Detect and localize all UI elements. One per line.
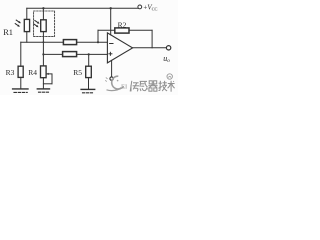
background (0, 0, 178, 95)
char shu (168, 81, 175, 92)
resistor R5 body (86, 66, 92, 77)
op-amp plus sign (109, 53, 112, 55)
photoresistor arrows RG (33, 20, 39, 27)
junction dot crossing (42, 41, 44, 43)
char gan (140, 81, 148, 91)
watermark text EI (121, 83, 127, 90)
watermark small circle mark (167, 74, 172, 79)
junction dot R5 tap (88, 53, 90, 55)
wire feedback riser from inverting input (97, 30, 99, 42)
junction dot N2 (42, 53, 44, 55)
resistor input lower (unlabeled) body (63, 52, 77, 57)
junction dot feedback tap (97, 41, 99, 43)
junction dot RG top at rail (42, 7, 44, 9)
wire R4 bottom lead (42, 78, 44, 89)
wire photoresistor RG bottom lead down to node N2 (42, 32, 44, 55)
wire R1 top lead (26, 8, 28, 19)
resistor R2 body (115, 28, 129, 33)
wire upper resistor to op-amp inverting input (77, 41, 108, 43)
dashed enclosure box (34, 11, 55, 37)
op-amp U1 triangle (107, 33, 132, 63)
wire R5 top lead from node on non-inverting line (88, 54, 90, 66)
wire R3 top lead (20, 42, 22, 66)
wiper arrowhead on R4 (46, 73, 49, 75)
op-amp minus sign (110, 43, 113, 45)
wire top +Vcc rail (27, 7, 138, 9)
svg-text:EI: EI (121, 83, 127, 90)
ground below R5 (81, 88, 95, 90)
svg-text:R1: R1 (3, 28, 13, 37)
wire R5 bottom lead (88, 78, 90, 89)
svg-text:R2: R2 (118, 20, 127, 29)
resistor input upper (unlabeled) body (63, 40, 76, 45)
ground below R3 (13, 88, 28, 90)
wire R3 bottom lead (20, 77, 22, 88)
svg-text:R4: R4 (28, 68, 37, 77)
wire R4 bottom-to-wiper link (43, 83, 52, 85)
wire lower resistor to op-amp non-inverting input (77, 53, 108, 55)
char chuan (130, 81, 139, 92)
terminal output circle (166, 46, 170, 50)
wire feedback drop to output (151, 30, 153, 48)
watermark logo swirl (105, 76, 124, 90)
svg-text:R3: R3 (6, 68, 15, 77)
wire feedback top left segment (98, 29, 115, 31)
wire op-amp positive supply from +Vcc rail (110, 8, 112, 35)
char qi (148, 81, 157, 91)
terminal negative supply circle (110, 77, 113, 80)
wire R4 top lead (42, 54, 44, 66)
char ji (159, 81, 168, 91)
watermark chinese characters (drawn strokes) (130, 81, 174, 92)
wire feedback top right segment (129, 29, 152, 31)
junction dot supply at rail (110, 7, 112, 9)
wire photoresistor RG top lead (42, 8, 44, 19)
ground below R4 (37, 88, 49, 90)
resistor R4 (adjustable) body (41, 66, 47, 78)
wire node N2 horizontal to lower input resistor (43, 53, 62, 55)
resistor RG (photoresistor in dashed box) body (41, 20, 47, 32)
wire R1 bottom lead (26, 32, 28, 43)
resistor R1 (photoresistor) body (24, 19, 29, 31)
wire op-amp output (133, 47, 167, 49)
photoresistor arrows R1 (15, 20, 21, 27)
wire node N1 horizontal to input resistor (21, 41, 64, 43)
svg-text:R5: R5 (73, 68, 82, 77)
wire R4 wiper arm (47, 74, 52, 84)
terminal +Vcc circle (138, 5, 142, 9)
wire op-amp negative supply down (111, 60, 113, 76)
resistor R3 body (18, 66, 23, 77)
